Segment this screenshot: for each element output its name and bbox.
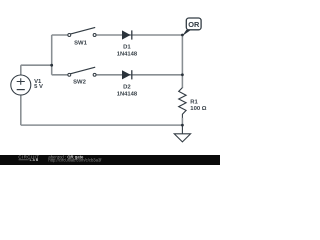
svg-text:1N4148: 1N4148 xyxy=(117,52,138,58)
svg-text:1N4148: 1N4148 xyxy=(117,91,138,97)
svg-text:100 Ω: 100 Ω xyxy=(190,106,206,112)
svg-text:5 V: 5 V xyxy=(34,84,43,90)
svg-text:SW1: SW1 xyxy=(74,40,87,46)
svg-text:LAB: LAB xyxy=(30,158,39,162)
svg-text:SW2: SW2 xyxy=(73,79,86,85)
svg-text:D2: D2 xyxy=(123,85,131,91)
svg-text:http://circuitlab.com/c/cb3a3f: http://circuitlab.com/c/cb3a3f xyxy=(48,158,102,163)
svg-text:R1: R1 xyxy=(190,100,198,106)
svg-text:D1: D1 xyxy=(123,45,131,51)
svg-text:OR: OR xyxy=(188,20,200,29)
